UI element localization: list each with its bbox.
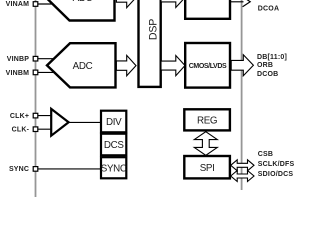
DSP block (cropped at top) bbox=[139, 0, 161, 87]
pin CLK- bbox=[33, 127, 38, 132]
wire VINBP to ADC B bbox=[36, 58, 56, 60]
DIV block bbox=[101, 111, 126, 133]
svg-text:SDIO/DCS: SDIO/DCS bbox=[258, 171, 294, 178]
svg-text:REG: REG bbox=[197, 115, 217, 126]
svg-text:SYNC: SYNC bbox=[101, 163, 127, 174]
svg-text:CLK+: CLK+ bbox=[10, 113, 29, 120]
wire CLK+ to clock buffer bbox=[36, 115, 54, 117]
svg-text:ADC: ADC bbox=[73, 61, 93, 72]
bus arrow DSP to CMOS/LVDS B bbox=[161, 56, 185, 76]
DCS block bbox=[101, 134, 126, 156]
double arrow REG to SPI bbox=[194, 132, 217, 156]
svg-text:VINBM: VINBM bbox=[6, 70, 30, 77]
wire clock buffer to DIV bbox=[67, 121, 101, 123]
bus arrow DSP to CMOS/LVDS A bbox=[161, 0, 185, 8]
svg-text:ORB: ORB bbox=[257, 62, 273, 69]
wire CLK- to clock buffer bbox=[36, 128, 54, 130]
clock buffer triangle bbox=[51, 109, 68, 136]
SYNC block bbox=[101, 157, 126, 178]
svg-text:SPI: SPI bbox=[200, 163, 215, 174]
wire VINAM to ADC A bbox=[36, 3, 57, 5]
left package rail bbox=[35, 0, 37, 197]
pin CLK+ bbox=[33, 113, 38, 118]
svg-text:SCLK/DFS: SCLK/DFS bbox=[258, 161, 295, 168]
svg-text:VINBP: VINBP bbox=[7, 56, 30, 63]
pin VINAM bbox=[33, 2, 38, 7]
bus arrow ADC B to DSP bbox=[116, 55, 136, 75]
wire SYNC pin to SYNC block bbox=[36, 168, 102, 170]
pin VINBP bbox=[33, 56, 38, 61]
double arrow SPI to CSB/SCLK pins bbox=[231, 160, 254, 171]
DCOA output arrowhead bbox=[243, 0, 251, 7]
svg-text:DCOB: DCOB bbox=[257, 71, 278, 78]
pin SYNC bbox=[33, 167, 38, 172]
svg-text:CMOS/LVDS: CMOS/LVDS bbox=[189, 63, 227, 70]
svg-text:DIV: DIV bbox=[106, 117, 122, 128]
svg-text:SYNC: SYNC bbox=[9, 166, 29, 173]
SPI block bbox=[184, 156, 230, 178]
double arrow SPI to SDIO pin bbox=[231, 171, 254, 182]
svg-text:DCS: DCS bbox=[104, 140, 124, 151]
right package rail bbox=[241, 0, 243, 190]
bus arrow CMOS/LVDS B to DB pins bbox=[231, 55, 253, 76]
svg-text:ADC: ADC bbox=[73, 0, 93, 4]
svg-text:VINAM: VINAM bbox=[6, 1, 30, 8]
pin VINBM bbox=[33, 70, 38, 75]
bus arrow ADC A to DSP bbox=[116, 0, 136, 8]
CMOS/LVDS B block bbox=[185, 43, 230, 88]
ADC B block bbox=[47, 43, 116, 87]
wire VINBM to ADC B bbox=[36, 71, 56, 73]
svg-text:CSB: CSB bbox=[258, 151, 273, 158]
svg-text:DCOA: DCOA bbox=[258, 5, 279, 12]
REG block bbox=[184, 109, 230, 130]
ADC A block (cropped at top) bbox=[47, 0, 115, 21]
wire DCOA output bbox=[230, 1, 244, 3]
CMOS/LVDS A block (cropped at top) bbox=[185, 0, 230, 19]
svg-text:CLK-: CLK- bbox=[12, 127, 30, 134]
svg-text:DB[11:0]: DB[11:0] bbox=[257, 54, 287, 61]
svg-text:DSP: DSP bbox=[147, 19, 159, 40]
